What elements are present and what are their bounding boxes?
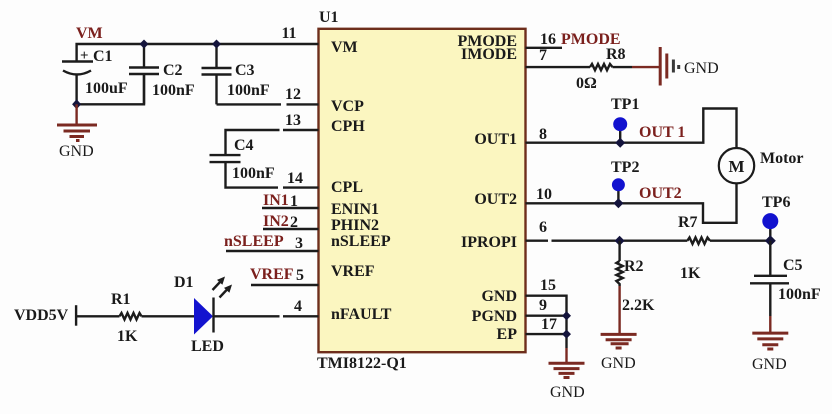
svg-text:CPH: CPH	[331, 118, 365, 135]
wire C1 to C2 bottom	[77, 74, 144, 104]
svg-text:TP6: TP6	[762, 194, 790, 211]
svg-text:LED: LED	[191, 338, 224, 355]
wire C4 bottom to pin 14 CPL	[226, 162, 319, 188]
svg-text:OUT 1: OUT 1	[639, 124, 685, 141]
svg-text:100nF: 100nF	[227, 82, 270, 99]
svg-text:GND: GND	[59, 143, 94, 160]
svg-text:TP1: TP1	[611, 96, 639, 113]
svg-text:IN2: IN2	[263, 213, 289, 230]
node junction C3 top	[212, 40, 221, 49]
wire pin 6 IPROPI to R7 and TP6	[526, 239, 688, 241]
node junction TP2/OUT2	[613, 198, 623, 208]
svg-text:R8: R8	[606, 46, 626, 63]
svg-text:17: 17	[541, 316, 557, 333]
ground GND right of R8 (rotated)	[660, 47, 679, 86]
svg-text:OUT2: OUT2	[639, 185, 682, 202]
svg-text:4: 4	[294, 298, 302, 315]
svg-text:IMODE: IMODE	[461, 46, 517, 63]
svg-text:C4: C4	[234, 137, 254, 154]
VDD5V terminal bar	[75, 305, 77, 326]
svg-text:D1: D1	[174, 274, 194, 291]
wire R1 to LED	[142, 315, 195, 317]
svg-text:14: 14	[287, 170, 303, 187]
wire R7 to TP6/C5 junction	[710, 239, 770, 241]
svg-text:nSLEEP: nSLEEP	[331, 233, 391, 250]
resistor R7	[687, 238, 710, 244]
svg-text:VREF: VREF	[250, 266, 294, 283]
wire pin 9 PGND	[526, 315, 567, 317]
svg-text:CPL: CPL	[331, 179, 363, 196]
svg-text:VDD5V: VDD5V	[14, 307, 69, 324]
svg-text:PGND: PGND	[472, 308, 517, 325]
capacitor C1 (polarized)	[62, 62, 93, 105]
node IN1 stub wire pin 1	[262, 207, 319, 209]
svg-text:12: 12	[285, 86, 301, 103]
svg-text:100uF: 100uF	[85, 80, 128, 97]
svg-text:0Ω: 0Ω	[576, 75, 597, 92]
node VREF stub wire pin 5	[251, 284, 319, 286]
svg-text:VREF: VREF	[331, 263, 375, 280]
resistor R1	[120, 313, 142, 320]
svg-text:nSLEEP: nSLEEP	[224, 233, 284, 250]
wire pin 8 OUT1 to motor	[526, 109, 737, 149]
wire LED to pin 4 nFAULT	[214, 315, 319, 317]
svg-text:100nF: 100nF	[778, 286, 821, 303]
svg-text:6: 6	[539, 219, 547, 236]
svg-text:R1: R1	[111, 291, 131, 308]
svg-text:R7: R7	[678, 214, 698, 231]
svg-text:OUT1: OUT1	[474, 131, 517, 148]
svg-text:Motor: Motor	[760, 150, 804, 167]
svg-text:GND: GND	[684, 60, 719, 77]
capacitor C3	[202, 44, 232, 104]
wire VDD5V to R1	[76, 315, 119, 317]
wire pin 16 PMODE stub	[526, 47, 563, 49]
svg-text:C3: C3	[235, 62, 255, 79]
wire VM rail to pin 11	[77, 44, 319, 62]
U1 right pin names	[457, 33, 517, 343]
svg-text:100nF: 100nF	[152, 82, 195, 99]
svg-text:10: 10	[536, 186, 552, 203]
node junction TP1/OUT1	[615, 138, 625, 148]
ground GND under C5	[752, 333, 788, 349]
svg-text:9: 9	[539, 297, 547, 314]
capacitor C4	[210, 155, 241, 162]
svg-text:GND: GND	[481, 288, 517, 305]
svg-text:15: 15	[540, 277, 556, 294]
node IN2 stub wire pin 2	[263, 228, 319, 230]
U1 left pin names	[331, 39, 392, 323]
svg-text:C1: C1	[93, 48, 113, 65]
svg-text:1K: 1K	[680, 265, 701, 282]
svg-text:IPROPI: IPROPI	[461, 234, 517, 251]
svg-text:11: 11	[281, 25, 296, 42]
svg-text:1: 1	[290, 193, 298, 210]
svg-text:TMI8122-Q1: TMI8122-Q1	[317, 355, 407, 372]
resistor R8	[590, 64, 613, 70]
svg-text:R2: R2	[624, 258, 644, 275]
diode D1 LED	[194, 298, 214, 335]
svg-text:TP2: TP2	[611, 159, 639, 176]
wire pin 13 CPH to C4 top	[226, 130, 319, 155]
wire pin 7 IMODE to R8	[526, 66, 591, 68]
svg-text:C5: C5	[783, 257, 803, 274]
wire C3 bottom to pin 12 VCP	[217, 103, 319, 105]
node junction pin 17	[562, 330, 571, 339]
node junction pin 9	[562, 311, 571, 320]
wire pin 17 EP	[526, 333, 567, 335]
svg-text:2: 2	[290, 214, 298, 231]
svg-text:VCP: VCP	[331, 98, 364, 115]
svg-text:OUT2: OUT2	[474, 191, 517, 208]
svg-text:100nF: 100nF	[232, 165, 275, 182]
node nSLEEP stub wire pin 3	[226, 250, 319, 252]
svg-text:PHIN2: PHIN2	[331, 217, 379, 234]
svg-text:VM: VM	[76, 25, 103, 42]
node junction C2 top	[140, 40, 149, 49]
capacitor C2	[129, 44, 159, 104]
node junction pin6/R2	[615, 236, 625, 246]
test point TP2	[612, 178, 625, 203]
svg-text:IN1: IN1	[263, 192, 289, 209]
svg-text:13: 13	[285, 112, 301, 129]
svg-text:EP: EP	[497, 326, 518, 343]
svg-text:GND: GND	[550, 384, 585, 401]
svg-text:GND: GND	[601, 355, 636, 372]
ground GND under R2	[601, 334, 637, 348]
test point TP1	[613, 117, 627, 143]
test point TP6	[762, 213, 778, 241]
svg-text:1K: 1K	[117, 328, 138, 345]
svg-text:+: +	[80, 48, 89, 64]
wire to ground under pins	[565, 348, 567, 362]
LED emission arrows	[213, 277, 233, 298]
svg-text:ENIN1: ENIN1	[331, 201, 379, 218]
node junction TP6/C5	[765, 235, 776, 246]
IC U1 TMI8122-Q1 body	[319, 29, 526, 352]
motor M	[719, 148, 754, 183]
svg-text:5: 5	[296, 267, 304, 284]
svg-text:VM: VM	[331, 39, 358, 56]
svg-text:nFAULT: nFAULT	[331, 306, 392, 323]
ground GND under pins 15/9/17	[549, 363, 585, 377]
svg-text:8: 8	[539, 126, 547, 143]
wire pin 10 OUT2 to motor	[526, 183, 737, 222]
capacitor C5	[750, 241, 789, 333]
resistor R2 (vertical)	[616, 241, 622, 334]
ground GND under C1	[57, 104, 97, 140]
svg-text:7: 7	[539, 47, 547, 64]
svg-text:2.2K: 2.2K	[622, 297, 655, 314]
wire R8 to ground	[613, 66, 633, 68]
wire pin 15 GND	[526, 296, 567, 348]
svg-text:GND: GND	[752, 356, 787, 373]
node junction at C1 bottom	[72, 99, 81, 109]
svg-text:U1: U1	[319, 9, 339, 26]
svg-text:16: 16	[540, 31, 556, 48]
svg-text:M: M	[728, 157, 744, 176]
svg-text:3: 3	[295, 235, 303, 252]
svg-text:C2: C2	[163, 62, 183, 79]
